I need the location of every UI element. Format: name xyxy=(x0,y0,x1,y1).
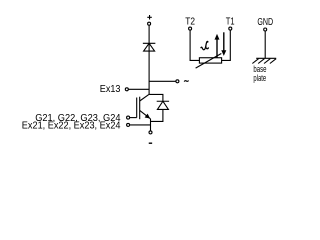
ground hatch 1 xyxy=(252,59,258,64)
ground hatch 2 xyxy=(258,59,264,64)
wire collector node to freewheel diode xyxy=(149,94,163,101)
thermistor label theta xyxy=(201,41,209,50)
NTC down arrow xyxy=(221,32,226,56)
terminal circle T1 xyxy=(229,27,232,30)
wire freewheel diode anode to emitter rail xyxy=(151,109,163,121)
wire gate lead xyxy=(130,117,137,119)
svg-text:Ex13: Ex13 xyxy=(100,84,121,95)
wire T1 to thermistor xyxy=(222,30,231,60)
svg-text:T1: T1 xyxy=(226,16,235,27)
wire AC branch xyxy=(149,80,176,82)
thermistor R1 body xyxy=(199,58,221,63)
terminal circle - xyxy=(149,131,152,134)
node label ~ xyxy=(184,81,188,82)
terminal circle GND xyxy=(264,28,267,31)
wire GND to base plate xyxy=(264,31,266,58)
svg-text:GND: GND xyxy=(257,17,273,28)
plus terminal label + xyxy=(147,15,152,19)
terminal circle Ex2x xyxy=(127,123,130,126)
ground chassis bar xyxy=(256,57,276,59)
wire main vertical from + terminal to collector node xyxy=(148,25,150,94)
minus terminal label - xyxy=(149,142,152,144)
NTC up arrow xyxy=(215,34,220,58)
terminal circle Ex13 xyxy=(125,88,128,91)
transistor Q1 IGBT emitter lead with arrow xyxy=(140,110,151,118)
svg-text:plate: plate xyxy=(253,73,266,83)
diode D2 freewheel xyxy=(157,101,169,109)
thermistor R1 diagonal stroke xyxy=(196,54,222,69)
wire emitter vertical xyxy=(150,119,152,131)
terminal circle G2x xyxy=(127,116,130,119)
ground hatch 3 xyxy=(264,59,270,64)
wire auxiliary emitter Ex2x xyxy=(130,124,151,126)
transistor Q1 IGBT collector lead xyxy=(140,94,149,101)
transistor Q1 IGBT gate bar xyxy=(136,98,138,118)
svg-text:Ex21, Ex22, Ex23, Ex24: Ex21, Ex22, Ex23, Ex24 xyxy=(22,120,121,131)
terminal circle + xyxy=(148,22,151,25)
wire Ex13 to collector rail xyxy=(129,88,150,90)
diode D1 rectifier xyxy=(143,43,156,51)
svg-text:T2: T2 xyxy=(185,16,195,27)
ground hatch 4 xyxy=(270,59,276,64)
transistor Q1 IGBT body bar xyxy=(139,97,141,120)
wire T2 to thermistor xyxy=(190,30,199,60)
terminal circle ~ xyxy=(176,80,179,83)
terminal circle T2 xyxy=(189,27,192,30)
